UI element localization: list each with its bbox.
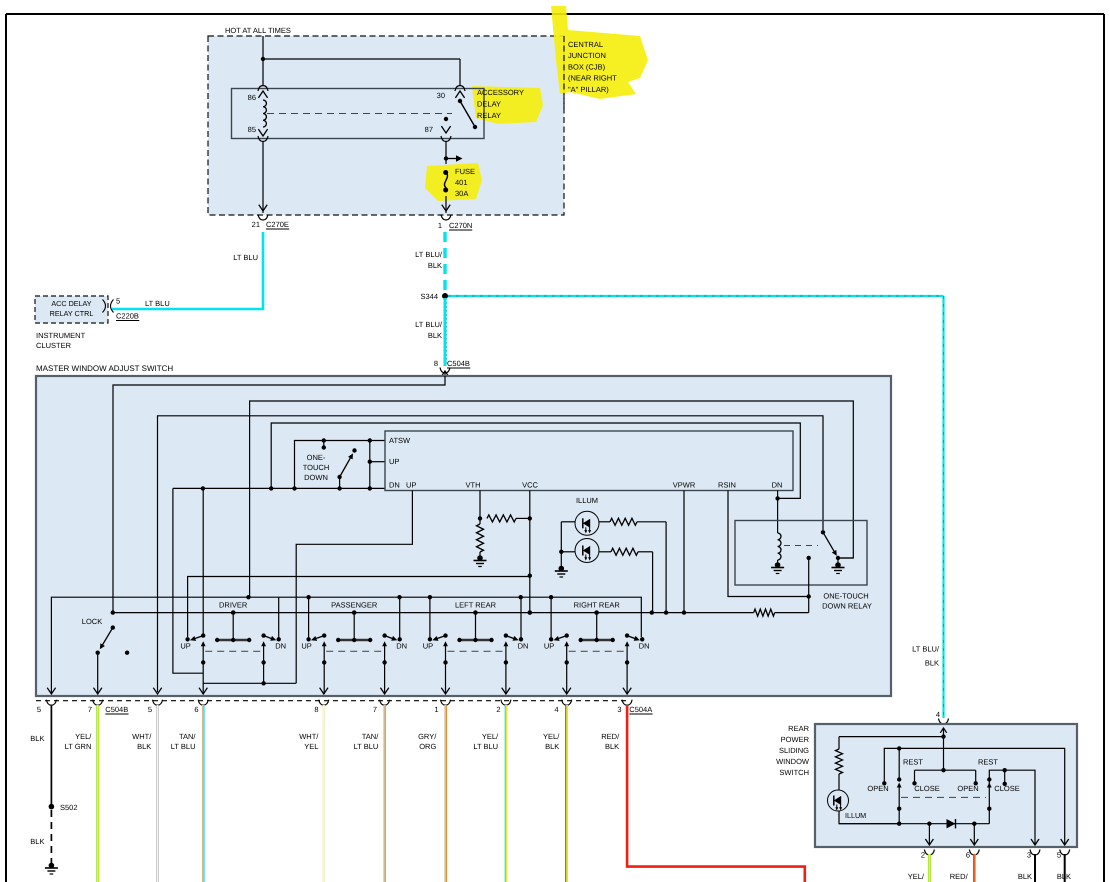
svg-text:DN: DN bbox=[275, 642, 286, 651]
svg-text:CENTRAL: CENTRAL bbox=[568, 40, 603, 49]
svg-text:OPEN: OPEN bbox=[867, 784, 888, 793]
svg-text:DOWN: DOWN bbox=[304, 473, 328, 482]
svg-text:BLK: BLK bbox=[30, 837, 44, 846]
svg-text:BOX (CJB): BOX (CJB) bbox=[568, 62, 606, 71]
svg-text:C220B: C220B bbox=[116, 312, 139, 321]
svg-text:4: 4 bbox=[554, 705, 558, 714]
svg-text:LT BLU: LT BLU bbox=[354, 742, 379, 751]
svg-text:ONE-TOUCH: ONE-TOUCH bbox=[823, 592, 868, 601]
svg-text:ONE-: ONE- bbox=[307, 453, 326, 462]
svg-text:6: 6 bbox=[194, 705, 198, 714]
svg-text:INSTRUMENT: INSTRUMENT bbox=[36, 331, 86, 340]
svg-text:SLIDING: SLIDING bbox=[779, 746, 809, 755]
svg-text:30A: 30A bbox=[455, 189, 468, 198]
svg-text:8: 8 bbox=[434, 359, 438, 368]
svg-text:CLOSE: CLOSE bbox=[994, 784, 1019, 793]
svg-text:UP: UP bbox=[389, 457, 399, 466]
svg-text:REST: REST bbox=[978, 758, 998, 767]
svg-text:ATSW: ATSW bbox=[389, 436, 411, 445]
svg-text:RSIN: RSIN bbox=[718, 481, 736, 490]
svg-text:(NEAR RIGHT: (NEAR RIGHT bbox=[568, 74, 617, 83]
svg-text:LT BLU: LT BLU bbox=[171, 742, 196, 751]
svg-text:86: 86 bbox=[248, 93, 256, 102]
svg-text:TAN/: TAN/ bbox=[362, 732, 379, 741]
svg-text:YEL/: YEL/ bbox=[908, 872, 925, 881]
svg-text:PASSENGER: PASSENGER bbox=[331, 601, 378, 610]
svg-text:VPWR: VPWR bbox=[673, 481, 696, 490]
svg-text:DOWN RELAY: DOWN RELAY bbox=[822, 602, 872, 611]
svg-text:ACCESSORY: ACCESSORY bbox=[477, 88, 524, 97]
svg-text:BLK: BLK bbox=[1057, 872, 1071, 881]
svg-text:LT BLU/: LT BLU/ bbox=[415, 320, 443, 329]
svg-text:UP: UP bbox=[423, 642, 433, 651]
svg-text:LOCK: LOCK bbox=[82, 617, 102, 626]
svg-text:DELAY: DELAY bbox=[477, 100, 501, 109]
svg-text:UP: UP bbox=[544, 642, 554, 651]
svg-text:YEL/: YEL/ bbox=[482, 732, 499, 741]
svg-text:DN: DN bbox=[772, 481, 783, 490]
svg-text:C504B: C504B bbox=[447, 359, 470, 368]
svg-text:DN: DN bbox=[396, 642, 407, 651]
svg-text:21: 21 bbox=[252, 220, 260, 229]
svg-text:REST: REST bbox=[903, 758, 923, 767]
svg-text:87: 87 bbox=[425, 125, 433, 134]
svg-text:LT BLU: LT BLU bbox=[145, 299, 170, 308]
svg-text:RELAY CTRL: RELAY CTRL bbox=[50, 309, 94, 318]
svg-text:S344: S344 bbox=[420, 292, 438, 301]
svg-text:BLK: BLK bbox=[428, 331, 442, 340]
svg-text:LEFT REAR: LEFT REAR bbox=[455, 601, 497, 610]
svg-text:RED/: RED/ bbox=[950, 872, 969, 881]
svg-text:BLK: BLK bbox=[30, 734, 44, 743]
svg-text:DRIVER: DRIVER bbox=[219, 601, 248, 610]
svg-text:JUNCTION: JUNCTION bbox=[568, 51, 606, 60]
svg-text:7: 7 bbox=[88, 705, 92, 714]
svg-text:RELAY: RELAY bbox=[477, 111, 501, 120]
svg-text:8: 8 bbox=[314, 705, 318, 714]
svg-text:LT BLU: LT BLU bbox=[233, 253, 258, 262]
svg-text:4: 4 bbox=[936, 710, 940, 719]
svg-text:BLK: BLK bbox=[1018, 872, 1032, 881]
svg-text:30: 30 bbox=[437, 91, 445, 100]
svg-text:LT GRN: LT GRN bbox=[65, 742, 92, 751]
svg-text:MASTER WINDOW ADJUST SWITCH: MASTER WINDOW ADJUST SWITCH bbox=[36, 364, 173, 373]
svg-text:SWITCH: SWITCH bbox=[779, 768, 809, 777]
svg-text:DN: DN bbox=[518, 642, 529, 651]
svg-text:BLK: BLK bbox=[428, 261, 442, 270]
svg-text:UP: UP bbox=[301, 642, 311, 651]
svg-text:C270N: C270N bbox=[449, 221, 472, 230]
svg-text:DN: DN bbox=[639, 642, 650, 651]
svg-text:WINDOW: WINDOW bbox=[776, 757, 810, 766]
svg-text:7: 7 bbox=[373, 705, 377, 714]
svg-text:85: 85 bbox=[248, 125, 256, 134]
svg-text:2: 2 bbox=[921, 851, 925, 860]
svg-text:2: 2 bbox=[496, 705, 500, 714]
svg-text:REAR: REAR bbox=[788, 724, 809, 733]
svg-text:S502: S502 bbox=[60, 803, 78, 812]
svg-text:GRY/: GRY/ bbox=[418, 732, 437, 741]
svg-text:5: 5 bbox=[116, 297, 120, 306]
svg-text:WHT/: WHT/ bbox=[132, 732, 152, 741]
svg-text:YEL: YEL bbox=[304, 742, 318, 751]
svg-text:1: 1 bbox=[438, 221, 442, 230]
svg-text:VCC: VCC bbox=[522, 481, 538, 490]
svg-text:TAN/: TAN/ bbox=[179, 732, 196, 741]
svg-text:HOT AT ALL TIMES: HOT AT ALL TIMES bbox=[225, 26, 291, 35]
svg-text:"A" PILLAR): "A" PILLAR) bbox=[568, 85, 609, 94]
svg-text:WHT/: WHT/ bbox=[299, 732, 319, 741]
svg-text:401: 401 bbox=[455, 178, 468, 187]
svg-text:BLK: BLK bbox=[545, 742, 559, 751]
svg-text:C270E: C270E bbox=[266, 220, 289, 229]
svg-text:OPEN: OPEN bbox=[957, 784, 978, 793]
svg-text:RED/: RED/ bbox=[601, 732, 620, 741]
svg-text:5: 5 bbox=[1057, 851, 1061, 860]
svg-text:UP: UP bbox=[406, 481, 416, 490]
svg-text:ILLUM: ILLUM bbox=[845, 811, 866, 820]
svg-text:BLK: BLK bbox=[925, 659, 939, 668]
svg-text:LT BLU/: LT BLU/ bbox=[415, 250, 443, 259]
svg-text:DN: DN bbox=[389, 481, 400, 490]
svg-text:CLUSTER: CLUSTER bbox=[36, 341, 72, 350]
svg-text:VTH: VTH bbox=[466, 481, 481, 490]
svg-text:3: 3 bbox=[617, 705, 621, 714]
svg-text:TOUCH: TOUCH bbox=[303, 463, 330, 472]
svg-text:3: 3 bbox=[1027, 851, 1031, 860]
svg-text:YEL/: YEL/ bbox=[543, 732, 560, 741]
svg-text:ILLUM: ILLUM bbox=[576, 496, 598, 505]
svg-text:5: 5 bbox=[37, 705, 41, 714]
svg-text:FUSE: FUSE bbox=[455, 167, 475, 176]
svg-text:BLK: BLK bbox=[605, 742, 619, 751]
svg-text:C504B: C504B bbox=[105, 705, 128, 714]
svg-text:LT BLU: LT BLU bbox=[473, 742, 498, 751]
svg-text:RIGHT REAR: RIGHT REAR bbox=[574, 601, 621, 610]
svg-text:LT BLU/: LT BLU/ bbox=[912, 645, 940, 654]
svg-text:ORG: ORG bbox=[419, 742, 436, 751]
svg-text:YEL/: YEL/ bbox=[75, 732, 92, 741]
svg-text:CLOSE: CLOSE bbox=[914, 784, 939, 793]
svg-text:POWER: POWER bbox=[781, 735, 810, 744]
svg-text:6: 6 bbox=[966, 851, 970, 860]
svg-text:1: 1 bbox=[434, 705, 438, 714]
svg-text:5: 5 bbox=[148, 705, 152, 714]
svg-text:BLK: BLK bbox=[137, 742, 151, 751]
svg-text:ACC DELAY: ACC DELAY bbox=[51, 299, 91, 308]
svg-text:UP: UP bbox=[180, 642, 190, 651]
svg-text:C504A: C504A bbox=[629, 705, 652, 714]
